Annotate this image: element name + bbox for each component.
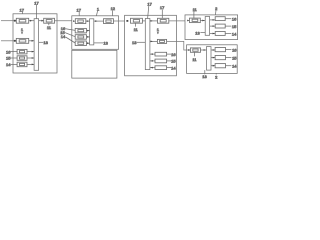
unit 1 outer box A [13,14,57,73]
arrow into box 12 [95,20,97,22]
svg-text:16: 16 [6,49,11,54]
svg-text:17: 17 [160,5,165,10]
box 14 (A S3) [17,62,27,66]
box A3 (row2 modulator) [16,38,28,43]
unit 1 outer box C [125,15,177,76]
box 15 (A S2) [17,56,27,61]
label 15 (D1) [225,25,231,27]
node connector square row1 C [126,20,128,22]
svg-text:14: 14 [232,64,237,69]
svg-text:1: 1 [97,6,100,11]
wire T to D1 S1 [210,19,216,21]
svg-text:1: 1 [157,27,160,32]
label 14 (D1) [225,33,231,35]
arrow into T [87,20,89,22]
demultiplexer 13 (tall box D2.T) [207,47,212,71]
box (D2 S2) [215,56,225,60]
arrow into T [151,67,153,69]
wire T to D1 S2 [210,25,216,27]
box 15 (B S2) [75,35,86,40]
empty lower box B2 [72,50,117,78]
svg-text:17: 17 [19,7,24,12]
wire T to D2 S3 [211,65,215,67]
svg-text:14: 14 [6,62,11,67]
arrow into T [30,20,32,22]
label 14 (D2) [226,65,232,67]
label 16 (C) [167,53,171,55]
arrow into D2L [188,49,190,51]
wire D1L to T [200,20,205,22]
wire A1 to T [29,20,34,22]
wire C row2: T to C4 [150,40,158,42]
arrow into S2 [213,25,215,27]
wire T to D2 S2 [211,57,215,59]
arrow into T [87,30,89,32]
wire B S3 to T [86,42,89,44]
svg-text:14: 14 [61,34,66,39]
svg-text:13: 13 [103,41,108,46]
wire S2 to T [27,57,34,59]
wire S3 to T [27,63,34,65]
arrow into S1 [213,19,215,21]
label 15 (D2) [226,57,232,59]
box 12 (B2r) [104,19,114,24]
multiplexer 13 (tall box C.T) [145,19,150,70]
svg-text:14: 14 [232,31,237,36]
svg-text:13: 13 [43,40,48,45]
wire A2 to edge + fiber to B [55,20,72,22]
svg-text:13: 13 [132,40,137,45]
box 17 (C2) [158,18,169,23]
arrow into D1L [187,20,189,22]
box 14 (B S3) [75,41,86,46]
arrow into T [151,53,153,55]
wire C S2 to T [150,60,155,62]
wire S1 to T [27,51,34,53]
unit 2 outer box D1 [185,15,238,40]
svg-text:17: 17 [147,1,152,6]
label 13 (A.T) [39,41,44,43]
arrow into B1 [73,20,75,22]
arrow into S2 [213,57,215,59]
svg-text:16: 16 [232,47,237,52]
arrow into T [32,40,34,42]
arrow into T [204,49,206,51]
arrow into T [151,60,153,62]
arrow into S1 [213,49,215,51]
arrow out of T [151,41,153,43]
wire input line 2 [1,40,16,42]
wire B S1 to T [86,30,89,32]
svg-text:11: 11 [134,27,139,32]
box 16 (A S1) [17,49,27,54]
wire T to C2 [150,20,158,22]
arrow into T [32,64,34,66]
box 11 (A2) [44,18,55,23]
box 17 (A1 modulator) [16,18,28,23]
label 15 (C) [167,60,171,62]
box C4 (row2) [157,39,166,43]
svg-text:17: 17 [76,8,81,13]
arrow into T [87,36,89,38]
svg-text:17: 17 [34,0,39,5]
unit outer box B [72,16,119,50]
wire C S3 to T [150,67,155,69]
wire B1 to T [86,20,90,22]
arrow into S3 [213,33,215,35]
wire C4 to edge, fiber2 bend down into D2 [167,41,191,50]
unit 2 outer box D2 [187,45,238,74]
label 16 (D1) [225,18,231,20]
box 14 (C S3) [155,66,167,70]
box 11 (D2L) [190,48,200,52]
wire T to A2 [39,20,44,22]
svg-text:2: 2 [215,74,218,79]
label 14 (C) [167,67,171,69]
label 11 (C1 below) [135,23,137,26]
arrow into A2 [41,20,43,22]
node connector square on input 1 [14,20,16,22]
svg-text:15: 15 [171,59,176,64]
svg-text:15: 15 [232,24,237,29]
label 16 (D2) [226,49,232,51]
svg-text:11: 11 [47,25,52,30]
wire C2 to edge and fiber to D1 [169,20,185,22]
demultiplexer 13 (tall box D1.T) [205,17,209,36]
svg-text:11: 11 [193,7,198,12]
arrow into S3 [213,65,215,67]
box 11 (C1) [131,18,143,23]
box (D2 S3) [215,64,225,68]
wire A3 to T [29,40,34,42]
svg-text:11: 11 [192,57,197,62]
wire B S2 to T [86,36,89,38]
node connector square on input 2 [14,40,16,42]
wire C1 to T [142,20,145,22]
box 16 (B S1) [75,28,86,33]
multiplexer 13 (tall box A.T) [34,19,39,71]
box (D2 S1) [215,48,225,52]
arrow into T [32,57,34,59]
svg-text:15: 15 [6,56,11,61]
wire T to D1 S3 [210,33,216,35]
arrow into T [32,51,34,53]
wire B2r to edge and fiber to C [113,20,124,22]
svg-text:15: 15 [232,55,237,60]
arrow into T [87,42,89,44]
svg-text:1: 1 [21,27,24,32]
box 17 (B1) [75,19,86,24]
box 15 (C S2) [155,59,167,63]
wire T to D2 S1 [211,49,215,51]
box 11 (D1L) [190,18,201,23]
label 13 (B.T) [94,42,103,44]
arrow into T [202,20,204,22]
wire C S1 to T [150,53,155,55]
arrow out of T [151,20,153,22]
svg-text:14: 14 [171,65,176,70]
box (D1 S2) [215,24,225,28]
box (D1 S3) [215,32,225,36]
svg-text:13: 13 [195,31,200,36]
svg-text:2: 2 [215,6,218,11]
wire T to B2r [94,20,104,22]
label 11 (A2, below) [48,23,50,25]
multiplexer 13 (tall box B.T) [90,19,94,45]
svg-text:13: 13 [202,74,207,79]
box (D1 S1) [215,17,225,21]
svg-text:12: 12 [111,6,116,11]
wire input line 1 [1,20,16,22]
svg-text:16: 16 [171,52,176,57]
wire D2L to T [201,49,207,51]
box 16 (C S1) [155,52,167,56]
label 11 (D2 below) [194,52,196,56]
svg-text:16: 16 [232,17,237,22]
